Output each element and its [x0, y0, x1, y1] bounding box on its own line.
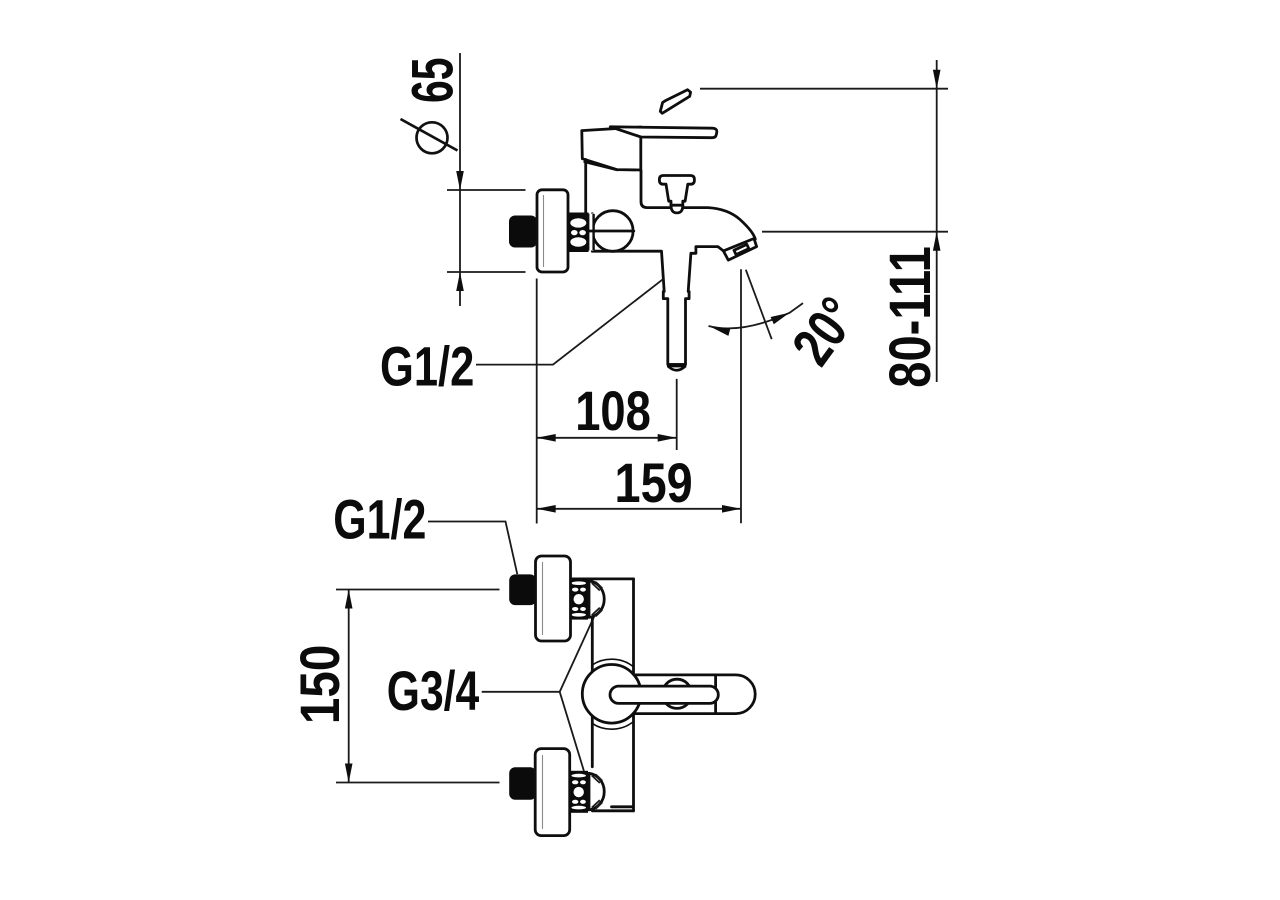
- svg-text:G1/2: G1/2: [380, 335, 474, 398]
- escutcheon thin circle (clipped to body band): [577, 659, 647, 729]
- bottom union dome: [589, 773, 604, 810]
- wall nipple (side view, black): [509, 216, 537, 248]
- dim 80-111: extension lines: [700, 89, 948, 232]
- dim 108 right extension: [676, 379, 678, 450]
- inner circle on spout (front view): [662, 679, 691, 708]
- dim 65: dimension line: [456, 53, 464, 306]
- svg-text:G3/4: G3/4: [387, 659, 479, 722]
- white band between union and valve: [588, 214, 593, 251]
- dim 150 extension lines: [336, 590, 500, 783]
- 20 deg slanted line: [746, 270, 772, 340]
- handle base: [582, 127, 641, 170]
- G1/2 label (side view) with leader: [380, 279, 663, 398]
- svg-text:159: 159: [615, 451, 693, 514]
- union block (side view): [567, 213, 589, 253]
- svg-text:108: 108: [575, 379, 651, 442]
- 20 deg reference: vertical line doubles as 159 right extension: [740, 269, 742, 523]
- handle lever bar: [610, 127, 717, 138]
- dim 65: label: [400, 58, 465, 154]
- dim 80-111: dimension line with outside arrows: [933, 60, 941, 382]
- svg-text:G1/2: G1/2: [333, 487, 426, 550]
- lever raised ghost flap: [660, 90, 690, 114]
- dim 108 line: [537, 434, 677, 442]
- valve cartridge circle (side view): [593, 211, 634, 252]
- top wall nipple (front view): [509, 574, 536, 605]
- handle column lines: [584, 160, 587, 214]
- wall flange (side view): [537, 190, 568, 272]
- handle base bottom lip line: [585, 162, 617, 170]
- bottom flange (front view): [535, 749, 570, 836]
- bottom union (front view): [570, 771, 588, 813]
- svg-text:80-111: 80-111: [878, 246, 943, 388]
- shower tube bottom cap: [667, 363, 686, 367]
- G3/4 label with V leader to both unions: [387, 616, 595, 771]
- lever slot capsule (front view): [610, 686, 718, 703]
- dim 159 line: [537, 505, 741, 513]
- dim 108/159 shared left extension line: [536, 279, 538, 524]
- body rectangle (front view): [571, 579, 634, 811]
- 20 deg arc with arrows: [709, 303, 804, 336]
- spout base bold circle (front view): [582, 665, 641, 724]
- bottom wall nipple (front view): [509, 767, 536, 800]
- faucet body outline with spout and shower outlet (side view): [592, 171, 755, 365]
- spout capsule (front view): [606, 675, 755, 714]
- svg-text:65: 65: [400, 58, 465, 104]
- svg-text:150: 150: [288, 645, 351, 724]
- dim 150 line: [345, 590, 353, 783]
- G1/2 label (front view) with leader: [333, 487, 517, 574]
- top flange (front view): [536, 556, 571, 641]
- valve mid line: [589, 230, 634, 233]
- dim 65: extension lines: [447, 190, 526, 272]
- top union (front view): black block with slots: [570, 579, 588, 620]
- diverter knob (side view): [659, 176, 694, 213]
- top union dome: [589, 581, 604, 618]
- aerator block at spout tip: [723, 239, 756, 261]
- spout seam line: [714, 676, 717, 688]
